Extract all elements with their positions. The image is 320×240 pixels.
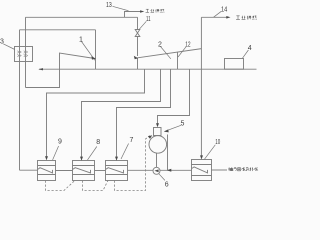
svg-text:6: 6: [165, 182, 169, 189]
svg-text:12: 12: [185, 42, 190, 49]
svg-text:3: 3: [0, 39, 4, 46]
svg-text:14: 14: [221, 6, 227, 13]
svg-text:5: 5: [181, 121, 185, 128]
svg-text:4: 4: [248, 45, 252, 52]
svg-text:10: 10: [215, 139, 220, 146]
svg-text:9: 9: [58, 138, 62, 145]
svg-text:7: 7: [130, 137, 134, 144]
svg-text:1: 1: [79, 37, 83, 44]
svg-text:8: 8: [96, 139, 100, 146]
svg-text:13: 13: [106, 2, 112, 9]
svg-text:2: 2: [158, 41, 162, 48]
svg-text:11: 11: [146, 16, 151, 23]
